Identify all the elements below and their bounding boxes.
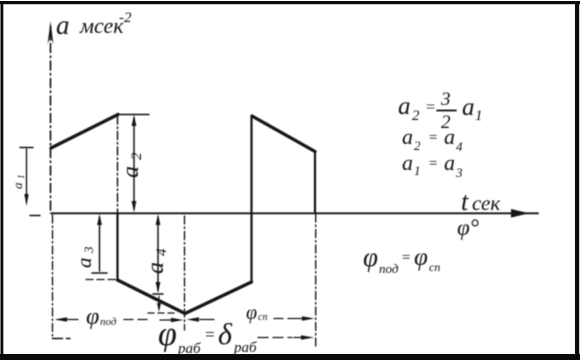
svg-text:под: под bbox=[100, 316, 117, 328]
svg-text:сп: сп bbox=[258, 312, 267, 323]
curve: down ramp to V bottom bbox=[118, 280, 186, 314]
label a3 (rotated) bbox=[72, 246, 96, 268]
center dash line below first peak bbox=[117, 116, 119, 212]
svg-text:a: a bbox=[444, 150, 455, 175]
svg-text:3: 3 bbox=[81, 246, 96, 254]
y-axis label "a мсек^-2" bbox=[56, 10, 132, 40]
y-axis bbox=[48, 21, 54, 213]
svg-text:δ: δ bbox=[218, 318, 233, 351]
phi_sp left arrow bbox=[187, 317, 215, 322]
svg-text:=: = bbox=[425, 99, 436, 116]
svg-text:2: 2 bbox=[129, 152, 145, 160]
svg-text:2: 2 bbox=[414, 138, 421, 153]
dimension row phi_rab: dashes after label bbox=[258, 337, 292, 339]
svg-text:мсек: мсек bbox=[79, 13, 124, 38]
svg-text:a: a bbox=[402, 150, 413, 175]
dimension a3: line, arrow, bottom bar bbox=[92, 214, 107, 273]
equation a2 = a4 bbox=[402, 124, 463, 154]
label a2 (rotated) bbox=[118, 152, 145, 178]
small gap dimension below a4 bbox=[157, 296, 161, 312]
curve: tall vertical rise of second pulse bbox=[250, 116, 252, 282]
svg-text:a: a bbox=[72, 258, 96, 269]
center dash line through V bottom bbox=[184, 216, 186, 330]
svg-text:=: = bbox=[401, 250, 411, 266]
label phi_rab = delta_rab bbox=[158, 316, 257, 357]
svg-text:a: a bbox=[143, 262, 169, 274]
svg-text:=: = bbox=[428, 156, 438, 172]
dimension a2: line and arrows bbox=[132, 115, 137, 213]
label a4 (rotated) bbox=[143, 248, 170, 274]
dashes phi_sp to right bbox=[274, 318, 300, 320]
label a1 small (rotated) bbox=[10, 175, 26, 190]
dashed level line at left knee bbox=[86, 279, 117, 281]
curve: second pulse descending top bbox=[252, 116, 315, 152]
svg-text:2: 2 bbox=[412, 108, 420, 124]
fraction bar bbox=[437, 110, 456, 112]
svg-text:a: a bbox=[402, 124, 413, 149]
x-axis label "φ°" bbox=[457, 215, 479, 240]
dimension a4: line and arrows bbox=[153, 214, 163, 294]
svg-text:=: = bbox=[204, 325, 215, 344]
svg-text:φ: φ bbox=[158, 316, 177, 353]
svg-text:a: a bbox=[398, 93, 411, 120]
phi_pod right arrow bbox=[160, 318, 184, 323]
dashes phi_pod to center bbox=[124, 319, 152, 321]
svg-text:=: = bbox=[428, 130, 438, 146]
curve: peak top extension line bbox=[118, 114, 149, 116]
svg-text:a: a bbox=[118, 166, 144, 178]
svg-text:φ°: φ° bbox=[457, 215, 479, 240]
svg-text:сп: сп bbox=[429, 260, 440, 274]
curve: rising ramp a1->a2 bbox=[51, 115, 118, 149]
svg-text:a: a bbox=[56, 10, 70, 40]
svg-text:a: a bbox=[462, 94, 475, 121]
svg-text:под: под bbox=[379, 261, 399, 276]
curve: second pulse final drop bbox=[314, 152, 316, 214]
svg-text:1: 1 bbox=[16, 175, 26, 180]
svg-text:3: 3 bbox=[440, 89, 451, 110]
svg-text:3: 3 bbox=[455, 165, 463, 180]
svg-text:4: 4 bbox=[456, 139, 463, 154]
dash line below y-axis bbox=[52, 215, 54, 336]
svg-text:раб: раб bbox=[233, 340, 257, 356]
dimension row phi_pod: left arrow bbox=[55, 317, 78, 322]
dash line below second pulse end bbox=[315, 214, 317, 348]
curve: up ramp from V bottom bbox=[185, 282, 252, 314]
svg-text:4: 4 bbox=[154, 248, 170, 256]
phi_sp right arrow bbox=[298, 316, 315, 321]
phi_rab right arrow bbox=[294, 335, 314, 340]
equation phi_pod = phi_sp bbox=[363, 242, 440, 276]
far-left small dimension a1 bbox=[20, 148, 33, 207]
svg-text:φ: φ bbox=[363, 242, 378, 272]
small tick left of origin bbox=[30, 215, 40, 217]
x-axis label "t сек" bbox=[461, 187, 500, 216]
svg-text:φ: φ bbox=[246, 302, 257, 324]
dashed level line at V bottom bbox=[148, 312, 176, 314]
svg-text:1: 1 bbox=[475, 108, 483, 124]
svg-text:-2: -2 bbox=[119, 10, 132, 26]
svg-text:φ: φ bbox=[414, 244, 428, 271]
svg-text:a: a bbox=[444, 124, 455, 149]
svg-text:сек: сек bbox=[472, 191, 500, 215]
curve: vertical drop below axis at x=118 bbox=[116, 213, 118, 280]
svg-text:1: 1 bbox=[414, 163, 421, 178]
x-axis bbox=[30, 209, 538, 218]
svg-text:a: a bbox=[10, 182, 25, 189]
svg-text:раб: раб bbox=[177, 341, 201, 357]
svg-text:φ: φ bbox=[86, 304, 99, 330]
equation a1 = a3 bbox=[402, 150, 463, 180]
svg-text:t: t bbox=[461, 187, 469, 216]
equation a2 = 3/2 a1 bbox=[398, 89, 483, 133]
label phi_sp bbox=[246, 302, 267, 324]
corner at bottom of y-axis dash bbox=[53, 338, 71, 340]
label phi_pod bbox=[86, 304, 117, 330]
